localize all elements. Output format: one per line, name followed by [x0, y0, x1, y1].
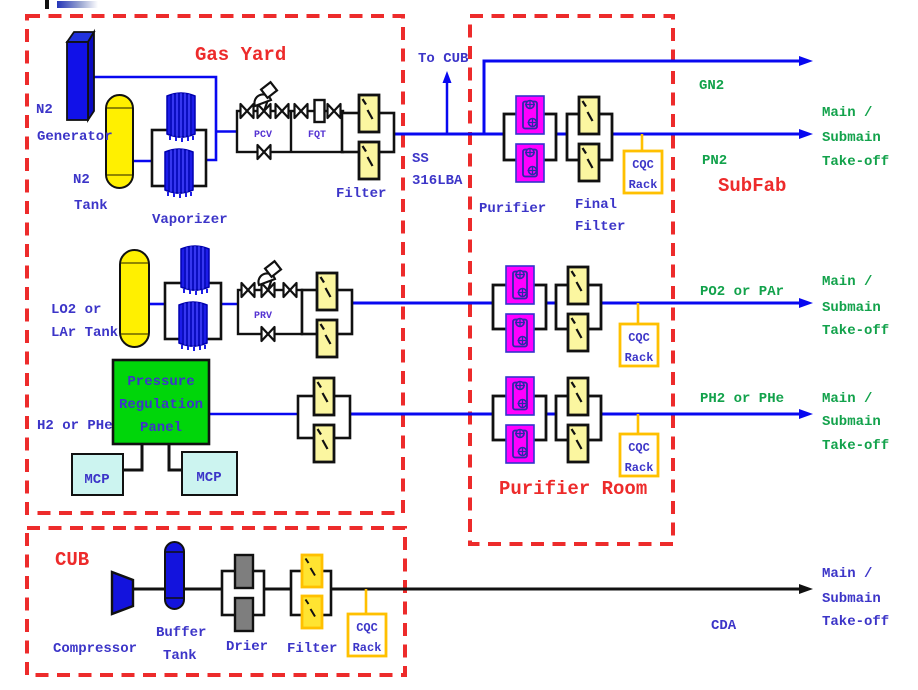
svg-text:SubFab: SubFab: [718, 175, 786, 197]
svg-text:Main /: Main /: [822, 566, 872, 582]
svg-text:316LBA: 316LBA: [412, 173, 463, 189]
svg-text:Tank: Tank: [163, 648, 197, 664]
svg-text:Final: Final: [575, 197, 617, 213]
svg-text:Vaporizer: Vaporizer: [152, 212, 228, 228]
svg-text:Panel: Panel: [140, 420, 182, 436]
svg-text:N2: N2: [73, 172, 90, 188]
svg-text:PH2 or PHe: PH2 or PHe: [700, 391, 784, 407]
svg-text:Buffer: Buffer: [156, 625, 206, 641]
svg-text:MCP: MCP: [196, 470, 221, 486]
svg-text:CUB: CUB: [55, 549, 89, 571]
svg-text:Main /: Main /: [822, 274, 872, 290]
svg-text:Take-off: Take-off: [822, 438, 889, 454]
svg-text:Take-off: Take-off: [822, 154, 889, 170]
svg-text:Regulation: Regulation: [119, 397, 203, 413]
svg-text:Generator: Generator: [37, 129, 113, 145]
svg-text:PCV: PCV: [254, 130, 272, 141]
svg-text:GN2: GN2: [699, 78, 724, 94]
svg-text:PRV: PRV: [254, 311, 272, 322]
svg-text:Submain: Submain: [822, 414, 881, 430]
svg-text:CDA: CDA: [711, 618, 737, 634]
svg-text:SS: SS: [412, 151, 429, 167]
svg-text:Filter: Filter: [336, 186, 386, 202]
svg-text:N2: N2: [36, 102, 53, 118]
svg-text:MCP: MCP: [84, 472, 109, 488]
svg-text:Tank: Tank: [74, 198, 108, 214]
svg-text:Purifier Room: Purifier Room: [499, 478, 647, 500]
svg-text:FQT: FQT: [308, 130, 326, 141]
svg-text:PN2: PN2: [702, 153, 727, 169]
svg-text:Take-off: Take-off: [822, 323, 889, 339]
svg-text:Main /: Main /: [822, 105, 872, 121]
svg-text:LO2 or: LO2 or: [51, 302, 101, 318]
svg-text:Filter: Filter: [287, 641, 337, 657]
svg-text:Purifier: Purifier: [479, 201, 546, 217]
svg-text:Compressor: Compressor: [53, 641, 137, 657]
svg-text:Submain: Submain: [822, 130, 881, 146]
svg-text:Main /: Main /: [822, 391, 872, 407]
svg-text:Submain: Submain: [822, 591, 881, 607]
svg-text:Take-off: Take-off: [822, 614, 889, 630]
svg-text:PO2 or PAr: PO2 or PAr: [700, 284, 784, 300]
svg-text:Filter: Filter: [575, 219, 625, 235]
svg-text:Drier: Drier: [226, 639, 268, 655]
svg-text:Gas Yard: Gas Yard: [195, 44, 286, 66]
svg-text:LAr Tank: LAr Tank: [51, 325, 118, 341]
svg-text:Pressure: Pressure: [127, 374, 194, 390]
svg-text:To CUB: To CUB: [418, 51, 469, 67]
svg-text:H2 or PHe: H2 or PHe: [37, 418, 113, 434]
svg-text:Submain: Submain: [822, 300, 881, 316]
